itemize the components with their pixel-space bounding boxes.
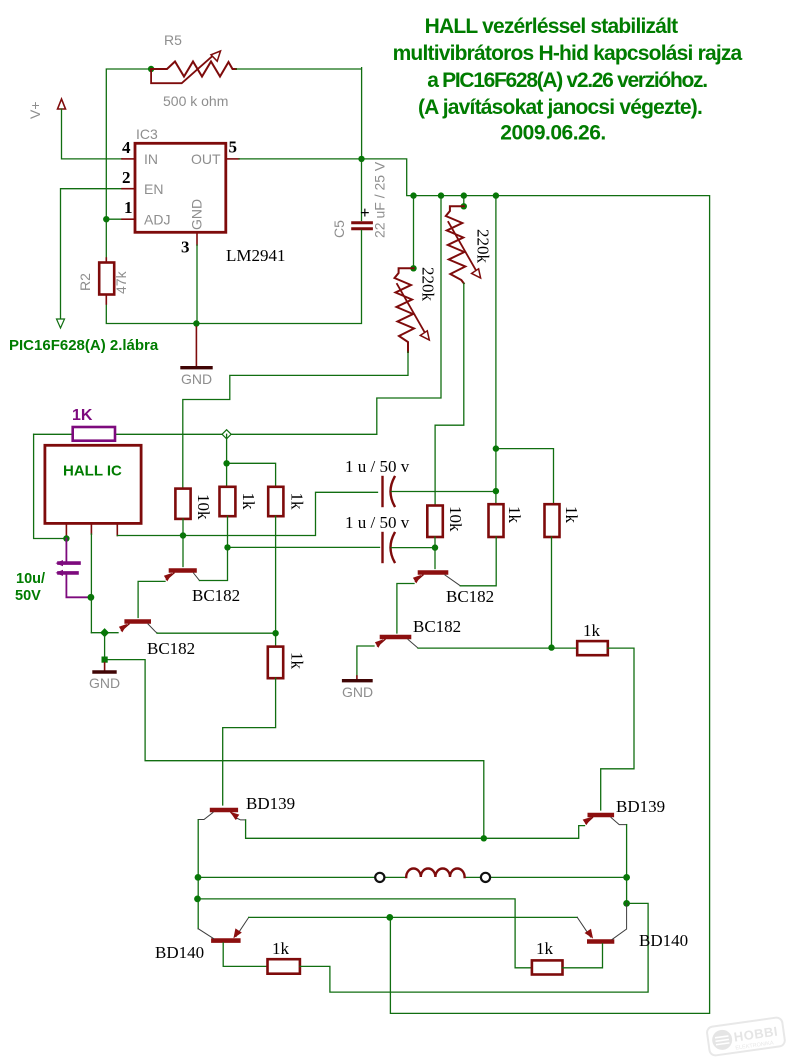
node base-1k junction: [272, 630, 278, 636]
svg-text:BC182: BC182: [192, 586, 240, 605]
label BC182 Q4: [413, 617, 461, 636]
wire Q2 emitter net: [91, 632, 118, 634]
svg-text:IN: IN: [144, 151, 158, 167]
motor terminal circle left: [375, 873, 384, 882]
label 10k R10b: [446, 506, 465, 532]
label BC182 Q3: [446, 587, 494, 606]
transistor Q3 BC182: [414, 573, 461, 586]
node ADJ junction: [103, 216, 109, 222]
transistor T1 BD139 left: [198, 810, 245, 820]
svg-text:+: +: [360, 203, 370, 222]
node base-R3 junction: [548, 644, 554, 650]
wire emitter rail PNP: [249, 916, 578, 918]
node Vplus emitter junction: [386, 914, 393, 921]
svg-text:2009.06.26.: 2009.06.26.: [500, 122, 605, 145]
transistor Q1 BC182: [165, 571, 200, 581]
label BD140 T4: [639, 931, 688, 950]
svg-text:HALL vezérléssel stabilizált: HALL vezérléssel stabilizált: [425, 15, 678, 38]
pin 2 EN: [122, 168, 163, 197]
label 22 uF / 25 V: [372, 161, 388, 238]
node 1k R1a bottom junction: [224, 544, 230, 550]
svg-text:50V: 50V: [15, 588, 41, 604]
label 1k R2b: [288, 652, 307, 670]
svg-text:1: 1: [124, 198, 133, 217]
svg-text:OUT: OUT: [191, 151, 221, 167]
wire pot P1 bottom to 10k top: [183, 352, 408, 489]
label BC182 Q2: [147, 639, 195, 658]
svg-text:5: 5: [229, 138, 238, 157]
potentiometer R5: [151, 51, 236, 83]
wire rail drop B to base net: [377, 196, 441, 435]
resistor 10k R10b: [427, 506, 443, 548]
resistor 1k R5L: [268, 959, 300, 974]
svg-text:(A javításokat janocsi végezte: (A javításokat janocsi végezte).: [418, 96, 702, 119]
capacitor C5: [353, 203, 372, 229]
wire Q3 collector drop: [434, 548, 436, 569]
wire collector net Q1: [117, 492, 377, 535]
pin 5 OUT: [191, 138, 239, 168]
label IC3: [136, 126, 158, 142]
wire R5 right to OUT net: [236, 68, 362, 159]
wire IC pin3 down: [195, 245, 198, 327]
svg-text:ADJ: ADJ: [144, 212, 170, 228]
svg-text:HALL IC: HALL IC: [63, 463, 122, 480]
node Vout rail dot B: [438, 192, 444, 198]
label 220k P2: [474, 229, 493, 264]
node rail2 left junction: [194, 896, 201, 903]
label 220k P1: [419, 267, 438, 302]
wire diamond to resistor tops: [227, 434, 276, 487]
wire T1 base drop: [197, 820, 199, 929]
watermark hobbi elektronika: [706, 1017, 785, 1056]
transistor Q4 BC182: [376, 637, 419, 648]
svg-text:1k: 1k: [288, 493, 307, 511]
svg-text:BD140: BD140: [639, 931, 688, 950]
svg-text:LM2941: LM2941: [226, 246, 286, 265]
wire rail to pot P1: [413, 196, 415, 269]
wire V+ stem to IN: [62, 109, 123, 159]
ground GND under IC: [181, 327, 212, 387]
wire C5 top: [361, 159, 363, 221]
svg-text:220k: 220k: [419, 267, 438, 302]
node base right junction: [623, 900, 630, 907]
svg-text:1k: 1k: [583, 621, 601, 640]
transistor T4 BD140 right: [577, 903, 626, 941]
resistor 1k R5R: [532, 960, 563, 974]
svg-text:1K: 1K: [72, 407, 93, 424]
label 1K: [72, 407, 93, 424]
svg-text:a PIC16F628(A) v2.26 verzióhoz: a PIC16F628(A) v2.26 verzióhoz.: [427, 69, 707, 92]
label BC182 Q1: [192, 586, 240, 605]
node rail1 left junction: [195, 874, 202, 881]
svg-text:500 k ohm: 500 k ohm: [163, 93, 228, 109]
svg-text:GND: GND: [189, 199, 205, 230]
capacitor C1 1u/50v: [383, 477, 496, 506]
resistor 1K purple: [73, 427, 115, 441]
power symbol V+: [27, 99, 66, 119]
arrow to PIC16F628: [57, 319, 65, 328]
node cap feed junction: [493, 445, 499, 451]
label 1k R5L: [272, 939, 290, 958]
ground GND Q4: [342, 676, 373, 700]
wire ADJ node to R5 left: [106, 69, 151, 219]
label BD140 T3: [155, 943, 204, 962]
svg-text:GND: GND: [89, 675, 120, 691]
node cap-hall junction: [88, 594, 95, 601]
ground wire from Q2 gnd node to NPN emitters: [105, 660, 484, 837]
svg-text:47k: 47k: [113, 270, 129, 294]
wire T2 base drop: [626, 825, 628, 904]
label LM2941: [226, 246, 286, 265]
resistor 1k R4: [552, 641, 608, 655]
label R5: [164, 32, 182, 48]
chip HALL IC: [45, 445, 141, 523]
label 1k R3: [562, 506, 581, 524]
svg-text:R2: R2: [77, 273, 93, 291]
node pot P1 top junction: [410, 265, 416, 271]
svg-text:1 u / 50 v: 1 u / 50 v: [345, 457, 410, 476]
svg-text:10k: 10k: [194, 494, 213, 520]
resistor 1k R1a: [220, 487, 236, 548]
resistor 1k R3: [545, 504, 560, 537]
wire Q4 emitter to ground: [357, 646, 374, 676]
node 10k bottom junction: [180, 532, 186, 538]
wire diamond to gnd node: [104, 633, 106, 660]
wire Q3 base to R2r: [460, 537, 496, 586]
wire C5 bottom to gnd rail: [106, 230, 361, 323]
label BD139 T2: [616, 797, 665, 816]
label 10u: [16, 571, 45, 587]
label C5: [331, 220, 347, 238]
svg-text:GND: GND: [342, 684, 373, 700]
resistor R2 47k: [99, 258, 114, 304]
capacitor C2 1u/50v: [228, 533, 436, 562]
transistor T3 BD140 left: [198, 917, 249, 940]
svg-text:3: 3: [181, 238, 190, 257]
wire T1 emitter rail: [246, 820, 585, 838]
wire R4 to T2 collector: [601, 648, 634, 810]
svg-text:1k: 1k: [239, 493, 258, 511]
wire jog to 1k3 top: [496, 449, 554, 505]
potentiometer 220k P1: [395, 268, 430, 352]
svg-text:BD139: BD139: [616, 797, 665, 816]
svg-text:1k: 1k: [505, 506, 524, 524]
wire T3 collector to 1k: [223, 943, 267, 967]
wire HALL left feed: [34, 434, 67, 538]
resistor 10k R10a: [175, 489, 190, 536]
label 50V: [15, 588, 41, 604]
pin 3 GND: [181, 199, 205, 257]
wire rail to pot P2: [463, 196, 465, 207]
pin HALL left: [65, 523, 67, 538]
svg-text:10k: 10k: [446, 506, 465, 532]
label 1k R5R: [536, 939, 554, 958]
node pot P2 top junction: [461, 203, 467, 209]
wire Q2 base net: [157, 632, 276, 634]
IC U1 LM2941 box: [135, 143, 226, 232]
node OUT-C5 junction: [358, 156, 364, 162]
svg-text:BC182: BC182: [446, 587, 494, 606]
node cap C2 right junction: [432, 544, 438, 550]
resistor 1k R2b: [268, 633, 283, 678]
node HALL left pin junction: [63, 535, 69, 541]
wire motor rail1: [198, 876, 627, 878]
svg-text:IC3: IC3: [136, 126, 158, 142]
svg-text:V+: V+: [27, 101, 43, 119]
resistor 1k R2a: [268, 487, 283, 633]
label 1k R1a: [239, 493, 258, 511]
wire EN to PIC arrow: [61, 189, 123, 319]
node IC gnd junction: [193, 320, 199, 326]
wire pot P2 bottom to 10k2 top: [435, 283, 464, 505]
label PIC16F628(A) 2.labra: [9, 337, 159, 354]
wire rail drop D: [495, 196, 497, 505]
wire Q1 base net: [200, 547, 228, 580]
svg-text:22 uF / 25 V: 22 uF / 25 V: [372, 161, 388, 238]
ground GND Q2: [89, 663, 120, 691]
svg-text:1k: 1k: [272, 939, 290, 958]
wire Q1 emitter to Q2 collector: [138, 581, 165, 617]
node Vout rail dot D: [493, 192, 499, 198]
node Vout rail dot A: [410, 192, 416, 198]
label 10k: [194, 494, 213, 520]
node rail1 right junction: [623, 874, 630, 881]
wire R2b to T1 collector: [223, 678, 276, 805]
pin HALL middle: [90, 523, 92, 534]
wire R2 top: [105, 219, 107, 258]
node cap C1 right junction: [493, 488, 499, 494]
resistor 1k R2r: [489, 504, 504, 537]
wire HALL bias net: [34, 433, 377, 435]
pin 1 ADJ: [122, 198, 170, 228]
wire Q3 emitter to Q4 collector: [397, 584, 414, 634]
svg-text:C5: C5: [331, 220, 347, 238]
svg-text:2: 2: [122, 168, 131, 187]
title text: [393, 15, 743, 145]
potentiometer 220k P2: [446, 206, 481, 283]
node gnd-emitter junction: [481, 835, 487, 841]
svg-text:BC182: BC182: [147, 639, 195, 658]
svg-text:1k: 1k: [536, 939, 554, 958]
node Vout rail dot C: [461, 192, 467, 198]
wire HALL middle down: [90, 534, 92, 633]
svg-text:220k: 220k: [474, 229, 493, 264]
label 1k R2a: [288, 493, 307, 511]
capacitor 10u 50V: [56, 539, 91, 598]
svg-text:R5: R5: [164, 32, 182, 48]
svg-text:BD140: BD140: [155, 943, 204, 962]
node open diamond junction: [222, 430, 231, 439]
node emitter diamond junction: [100, 628, 109, 637]
label R2: [77, 273, 93, 291]
pin 4 IN: [122, 138, 158, 167]
wire R5L to right base node: [300, 903, 648, 992]
svg-text:1k: 1k: [288, 652, 307, 670]
svg-text:multivibrátoros H-hid kapcsolá: multivibrátoros H-hid kapcsolási rajza: [393, 42, 743, 65]
label BD139 T1: [246, 794, 295, 813]
svg-text:BD139: BD139: [246, 794, 295, 813]
motor terminal circle right: [481, 873, 490, 882]
svg-text:10u/: 10u/: [16, 571, 45, 587]
svg-text:1k: 1k: [562, 506, 581, 524]
label 47k: [113, 270, 129, 294]
svg-text:PIC16F628(A) 2.lábra: PIC16F628(A) 2.lábra: [9, 337, 159, 354]
wire OUT net: [239, 159, 710, 1014]
pin HALL right: [116, 523, 118, 535]
inductor motor coil: [406, 869, 464, 878]
transistor Q2 BC182: [120, 622, 158, 633]
transistor T2 BD139 right: [583, 815, 626, 825]
label 1k R4: [583, 621, 601, 640]
wire R5R to T4 collector: [563, 944, 603, 968]
label C1 1u/50v: [345, 457, 410, 476]
wire motor rail2: [198, 899, 532, 968]
svg-text:1 u / 50 v: 1 u / 50 v: [345, 513, 410, 532]
node gnd branch junction: [102, 657, 108, 663]
svg-text:GND: GND: [181, 371, 212, 387]
svg-text:4: 4: [122, 138, 131, 157]
wire Q4 base net: [418, 537, 552, 648]
node junction below diamond: [223, 460, 229, 466]
label 1k R2r: [505, 506, 524, 524]
svg-text:EN: EN: [144, 181, 163, 197]
svg-text:BC182: BC182: [413, 617, 461, 636]
label C2 1u/50v: [345, 513, 410, 532]
label 500 k ohm: [163, 93, 228, 109]
wire Q1 collector drop: [182, 536, 184, 567]
node R5 left junction: [148, 66, 154, 72]
